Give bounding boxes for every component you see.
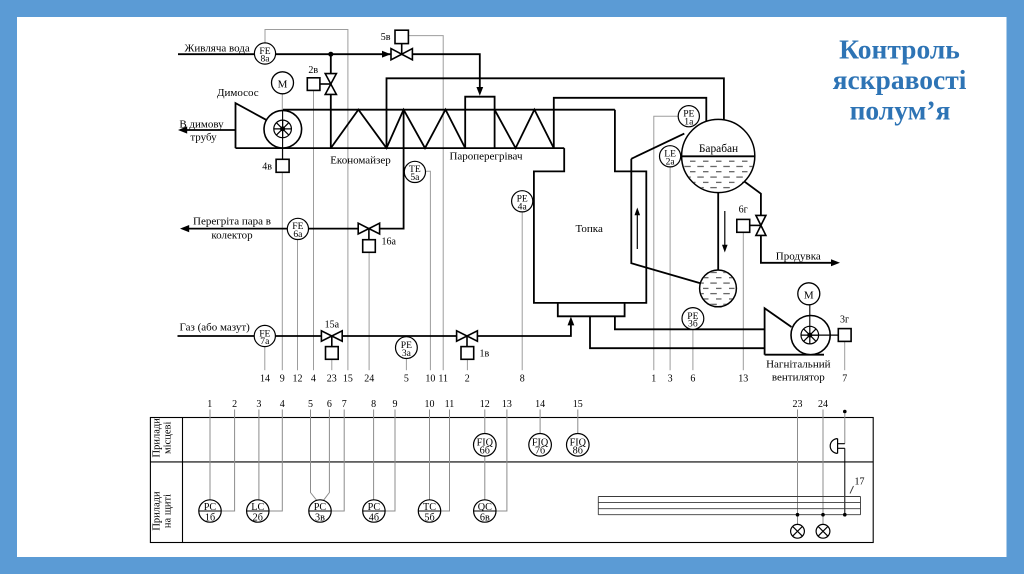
lamp 23 — [791, 524, 805, 538]
furnace outline — [534, 110, 646, 303]
svg-text:14: 14 — [535, 399, 545, 410]
header Прилади місцеві — [152, 418, 174, 531]
svg-text:трубу: трубу — [190, 132, 217, 144]
valve 15а with actuator — [321, 331, 342, 360]
svg-text:1б: 1б — [205, 512, 215, 523]
pressure element PE 3б — [682, 308, 704, 330]
arrow downcomer flow — [724, 211, 726, 246]
valve 6г with actuator — [737, 215, 766, 235]
wire col14 to FIQ7б — [539, 410, 541, 434]
motor M димосос — [272, 72, 294, 94]
svg-text:яскравості: яскравості — [833, 64, 967, 95]
title: Контроль яскравості полум’я — [833, 34, 967, 126]
forced draft fan (Нагнітальний вентилятор) — [765, 308, 831, 355]
svg-text:3: 3 — [256, 399, 261, 410]
wire LE2a to column 3 — [669, 167, 671, 370]
svg-text:6б: 6б — [480, 446, 490, 457]
wire TE5a to column 10 — [425, 171, 430, 370]
wire superheated steam down from superheater — [358, 110, 403, 229]
svg-text:10: 10 — [425, 373, 435, 384]
indicator FIQ 8б — [567, 434, 590, 457]
svg-text:14: 14 — [260, 373, 270, 384]
horn/plug symbol — [830, 439, 845, 454]
wire power drop to plug — [844, 413, 846, 444]
svg-text:12: 12 — [293, 373, 303, 384]
wire col15 to FIQ8б — [577, 410, 579, 434]
fan impeller вентилятор — [801, 326, 819, 344]
wire col3 to LC2б — [258, 410, 260, 500]
wire feed water line — [178, 53, 391, 55]
pressure element PE 4а — [512, 191, 533, 213]
wire PE3б to column 6 — [692, 329, 694, 370]
table connection wires — [210, 410, 845, 525]
fan scroll circle димосос — [264, 110, 302, 148]
wire col11 to TC5б — [441, 410, 450, 512]
indicator FIQ 7б — [529, 434, 552, 457]
svg-text:4а: 4а — [518, 202, 528, 213]
wire col9 to PC4б — [385, 410, 395, 512]
svg-text:12: 12 — [480, 399, 490, 410]
svg-text:8: 8 — [520, 373, 525, 384]
wire saturated steam drum to superheater — [554, 98, 707, 148]
wire col4 to LC2б — [269, 410, 282, 512]
svg-text:16а: 16а — [382, 236, 397, 247]
wire col5 to PC3в — [311, 410, 318, 501]
svg-text:2б: 2б — [253, 512, 263, 523]
table header column divider — [182, 418, 184, 543]
pressure element PE 3а — [396, 337, 418, 359]
wire col2 to PC1б — [221, 410, 234, 512]
wire col1 to PC1б — [209, 410, 211, 500]
wire blowdown from drum — [744, 181, 834, 263]
level element LE 2а — [660, 146, 681, 168]
wire air duct upper to fan — [615, 316, 765, 329]
svg-text:6а: 6а — [293, 229, 303, 240]
svg-text:24: 24 — [818, 399, 828, 410]
wire 16а actuator to column 24 — [368, 252, 370, 370]
lower drum — [699, 270, 737, 307]
svg-text:Пароперегрівач: Пароперегрівач — [449, 151, 523, 163]
svg-text:4: 4 — [280, 399, 285, 410]
svg-text:2в: 2в — [308, 65, 318, 76]
table column numbers — [207, 399, 828, 410]
controller PC 1б — [199, 500, 221, 524]
svg-text:на щиті: на щиті — [163, 494, 174, 528]
flow element FE 8а — [254, 43, 275, 65]
svg-text:8а: 8а — [260, 54, 270, 65]
svg-text:7: 7 — [842, 373, 847, 384]
arrow steam to collector — [180, 225, 189, 232]
svg-text:1а: 1а — [684, 116, 694, 127]
superheater coil — [495, 110, 554, 149]
lamp 24 — [816, 524, 830, 538]
table frame — [150, 418, 873, 543]
svg-text:15а: 15а — [325, 320, 340, 331]
wire col6 to PC3в — [323, 410, 329, 501]
wire fan shaft to 3г — [810, 334, 839, 336]
svg-text:Прилади: Прилади — [152, 418, 163, 458]
damper 4в — [276, 159, 289, 172]
recorder bus 17 — [598, 497, 860, 515]
wire superheated steam to collector — [186, 228, 380, 230]
wire flue duct top — [283, 109, 615, 111]
svg-text:5б: 5б — [424, 512, 434, 523]
table row divider — [150, 461, 873, 463]
valve 5в with actuator — [391, 30, 412, 60]
svg-text:3г: 3г — [840, 315, 849, 326]
wire plug to bus — [844, 448, 846, 514]
controller PC 3в — [309, 500, 331, 524]
svg-text:13: 13 — [738, 373, 748, 384]
node bus junction power — [843, 513, 847, 517]
svg-text:15: 15 — [573, 399, 583, 410]
svg-text:вентилятор: вентилятор — [772, 372, 825, 384]
wire FE7a to column 14 — [264, 347, 266, 371]
wire air duct lower to fan — [590, 316, 765, 348]
wire col23 to lamp — [797, 410, 799, 525]
wire FE8a up-over to column 15 — [265, 30, 348, 371]
smoke exhauster (Димосос) — [236, 103, 302, 148]
svg-text:1: 1 — [651, 373, 656, 384]
wire motor stem вентилятор — [809, 305, 811, 335]
arrow feed water flow — [382, 51, 391, 58]
svg-text:13: 13 — [502, 399, 512, 410]
wire 1в actuator to column 2 — [466, 359, 468, 370]
svg-text:2: 2 — [232, 399, 237, 410]
svg-text:7а: 7а — [260, 336, 270, 347]
arrow to chimney — [178, 126, 187, 133]
wire M(dимосос) down to column 9 — [281, 94, 283, 370]
svg-text:В димову: В димову — [179, 119, 224, 131]
wire col7 to PC3в — [331, 410, 344, 512]
wire PE4a to column 8 — [521, 212, 523, 370]
svg-text:місцеві: місцеві — [163, 422, 174, 454]
controller TC 5б — [418, 500, 440, 524]
svg-text:8б: 8б — [573, 446, 583, 457]
svg-text:24: 24 — [364, 373, 374, 384]
svg-text:3б: 3б — [688, 319, 698, 330]
wire flue duct bottom — [236, 147, 565, 149]
svg-text:3в: 3в — [315, 512, 325, 523]
motor M вентилятор — [798, 283, 820, 305]
svg-text:M: M — [278, 78, 288, 90]
svg-text:Продувка: Продувка — [776, 251, 821, 263]
svg-text:11: 11 — [438, 373, 448, 384]
svg-text:11: 11 — [445, 399, 455, 410]
svg-text:Димосос: Димосос — [217, 87, 259, 99]
arrow furnace updraft flow — [636, 214, 638, 249]
fan housing вентилятор — [765, 308, 792, 355]
wire 15а actuator to column 23 — [331, 359, 333, 370]
wire PE1a to column 1 — [654, 116, 679, 370]
svg-text:7б: 7б — [535, 446, 545, 457]
arrow feed into header — [476, 87, 483, 96]
indicator FIQ 6б — [474, 434, 497, 457]
svg-text:2: 2 — [465, 373, 470, 384]
controller LC 2б — [247, 500, 269, 524]
svg-text:Економайзер: Економайзер — [330, 155, 391, 167]
svg-text:6: 6 — [327, 399, 332, 410]
fan housing димосос — [236, 103, 268, 148]
svg-text:4: 4 — [311, 373, 316, 384]
wire col12 to FIQ6б and QC6в — [484, 410, 486, 500]
wire economizer outlet riser to drum line — [387, 78, 724, 148]
wire FE6a to column 12 — [297, 239, 299, 370]
junction node on feed line — [328, 52, 333, 57]
svg-text:9: 9 — [393, 399, 398, 410]
node fan hub dot димосос — [280, 126, 285, 131]
burner hopper — [558, 303, 625, 316]
wire col10 to TC5б — [429, 410, 431, 500]
svg-text:M: M — [804, 289, 814, 301]
svg-text:Живляча вода: Живляча вода — [185, 43, 250, 55]
svg-text:6г: 6г — [739, 204, 748, 215]
controller PC 4б — [363, 500, 385, 524]
wire 3г actuator to column 7 — [844, 341, 846, 370]
svg-text:Топка: Топка — [576, 223, 603, 235]
drum Барабан — [681, 119, 756, 193]
wire to chimney — [186, 129, 236, 131]
node fan hub dot вентилятор — [807, 333, 812, 338]
svg-text:5в: 5в — [381, 32, 391, 43]
flow element FE 6а — [287, 218, 308, 240]
svg-text:5: 5 — [308, 399, 313, 410]
svg-text:колектор: колектор — [211, 230, 253, 242]
svg-text:6в: 6в — [480, 512, 490, 523]
wire riser vertical and diagonal to lower drum — [631, 159, 701, 284]
svg-text:4в: 4в — [262, 161, 272, 172]
svg-text:Барабан: Барабан — [699, 143, 738, 155]
fan impeller димосос — [274, 110, 292, 159]
svg-text:Перегріта пара в: Перегріта пара в — [193, 216, 271, 228]
flow element FE 7а — [254, 325, 275, 347]
pressure element PE 1а — [678, 106, 699, 128]
svg-text:3: 3 — [668, 373, 673, 384]
svg-text:4б: 4б — [369, 512, 379, 523]
wire col13 to QC6в — [496, 410, 507, 512]
arrow gas into furnace — [568, 317, 575, 326]
wire 2в actuator to column 4 — [313, 90, 315, 370]
svg-text:1в: 1в — [480, 349, 490, 360]
svg-text:Нагнітальний: Нагнітальний — [766, 359, 830, 371]
valve 1в with actuator — [457, 331, 478, 360]
wire riser diagonal to drum — [631, 134, 684, 159]
svg-text:Газ (або мазут): Газ (або мазут) — [180, 322, 251, 334]
svg-text:Контроль: Контроль — [839, 34, 960, 65]
wire 5в actuator to column 11 — [409, 36, 444, 371]
svg-text:17: 17 — [855, 477, 865, 488]
wire col8 to PC4б — [373, 410, 375, 500]
svg-text:полум’я: полум’я — [850, 95, 951, 126]
svg-text:5а: 5а — [410, 172, 420, 183]
arrow blowdown out — [831, 259, 840, 266]
damper 3г — [838, 329, 851, 342]
svg-text:3а: 3а — [402, 348, 412, 359]
svg-text:5: 5 — [404, 373, 409, 384]
wire feed drop into economizer — [330, 54, 332, 148]
wire feed line valve5в to downcomer into header — [413, 54, 480, 88]
wire col24 to lamp — [822, 410, 824, 525]
svg-text:Прилади: Прилади — [152, 491, 163, 531]
svg-text:7: 7 — [342, 399, 347, 410]
svg-text:1: 1 — [207, 399, 212, 410]
controller QC 6в — [474, 500, 496, 524]
svg-text:23: 23 — [327, 373, 337, 384]
svg-text:2а: 2а — [666, 157, 676, 168]
valve 16а with actuator — [358, 223, 379, 252]
node bus junction 24 — [821, 513, 825, 517]
svg-text:9: 9 — [280, 373, 285, 384]
valve 2в with actuator — [307, 74, 336, 95]
wire gas line — [178, 322, 571, 337]
wire 6г actuator to column 13 — [742, 232, 744, 370]
node power dot — [843, 410, 847, 414]
wire downcomer drum to lower drum — [717, 193, 719, 271]
feed header box on duct — [465, 97, 494, 148]
temperature element TE 5а — [404, 161, 425, 183]
svg-text:23: 23 — [793, 399, 803, 410]
node bus junction 23 — [796, 513, 800, 517]
svg-text:8: 8 — [371, 399, 376, 410]
wire PE3a to column 5 — [405, 358, 407, 370]
economizer coil — [331, 110, 465, 149]
svg-text:10: 10 — [425, 399, 435, 410]
svg-text:15: 15 — [343, 373, 353, 384]
svg-text:6: 6 — [690, 373, 695, 384]
